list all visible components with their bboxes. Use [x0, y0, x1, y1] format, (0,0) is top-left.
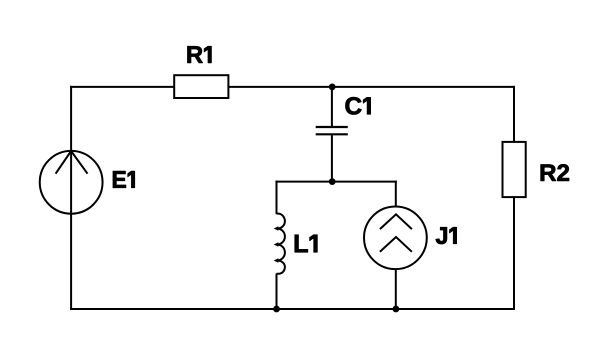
E1 arrow head right	[71, 151, 87, 174]
E1 arrow head left	[56, 151, 72, 174]
capacitor C1 plate top	[316, 126, 348, 128]
label C1	[346, 97, 371, 114]
J1 chevron bottom	[380, 237, 412, 252]
node top (C1 / R1-R2 wire)	[329, 84, 336, 91]
label L1	[295, 235, 318, 252]
wire L1 top lead	[276, 181, 278, 214]
capacitor C1 plate bottom	[316, 133, 348, 135]
wire right: top corner down to bottom corner	[513, 86, 515, 310]
wire top: left corner to right corner	[70, 86, 515, 88]
wire left: top corner down to bottom corner	[70, 86, 72, 310]
node bottom-left (L1 / bottom wire)	[273, 306, 280, 313]
wire middle node: L1 top to J1 top	[275, 181, 396, 183]
wire J1 bottom lead	[395, 269, 397, 311]
wire C1 top lead	[331, 87, 333, 126]
node bottom-right (J1 / bottom wire)	[393, 306, 400, 313]
label J1	[436, 227, 457, 244]
node middle (C1 / L1 / J1)	[329, 178, 336, 185]
current source J1	[364, 207, 427, 270]
wire C1 bottom lead	[331, 135, 333, 181]
label E1	[113, 171, 135, 188]
label R1	[188, 46, 212, 63]
voltage source E1	[40, 151, 103, 214]
L1 cusp curls	[274, 226, 279, 262]
J1 chevron top	[380, 214, 412, 229]
wire J1 top lead	[395, 181, 397, 208]
inductor L1	[277, 214, 285, 274]
resistor R2	[503, 142, 526, 197]
wire bottom: left corner to right corner	[70, 308, 515, 310]
label R2	[541, 164, 569, 181]
resistor R1	[174, 75, 228, 98]
wire L1 bottom lead	[276, 274, 278, 310]
